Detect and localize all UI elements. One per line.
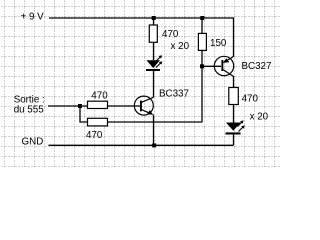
svg-text:+ 9 V: + 9 V (21, 12, 45, 23)
svg-text:x 20: x 20 (250, 112, 269, 123)
svg-text:GND: GND (22, 136, 44, 147)
svg-text:du 555: du 555 (14, 105, 45, 116)
svg-text:470: 470 (242, 93, 259, 104)
svg-text:470: 470 (91, 90, 108, 101)
svg-text:BC337: BC337 (159, 89, 189, 100)
svg-text:470: 470 (162, 29, 179, 40)
svg-text:470: 470 (86, 130, 103, 141)
svg-text:150: 150 (210, 38, 227, 49)
svg-text:x 20: x 20 (171, 41, 190, 52)
svg-text:BC327: BC327 (242, 61, 272, 72)
